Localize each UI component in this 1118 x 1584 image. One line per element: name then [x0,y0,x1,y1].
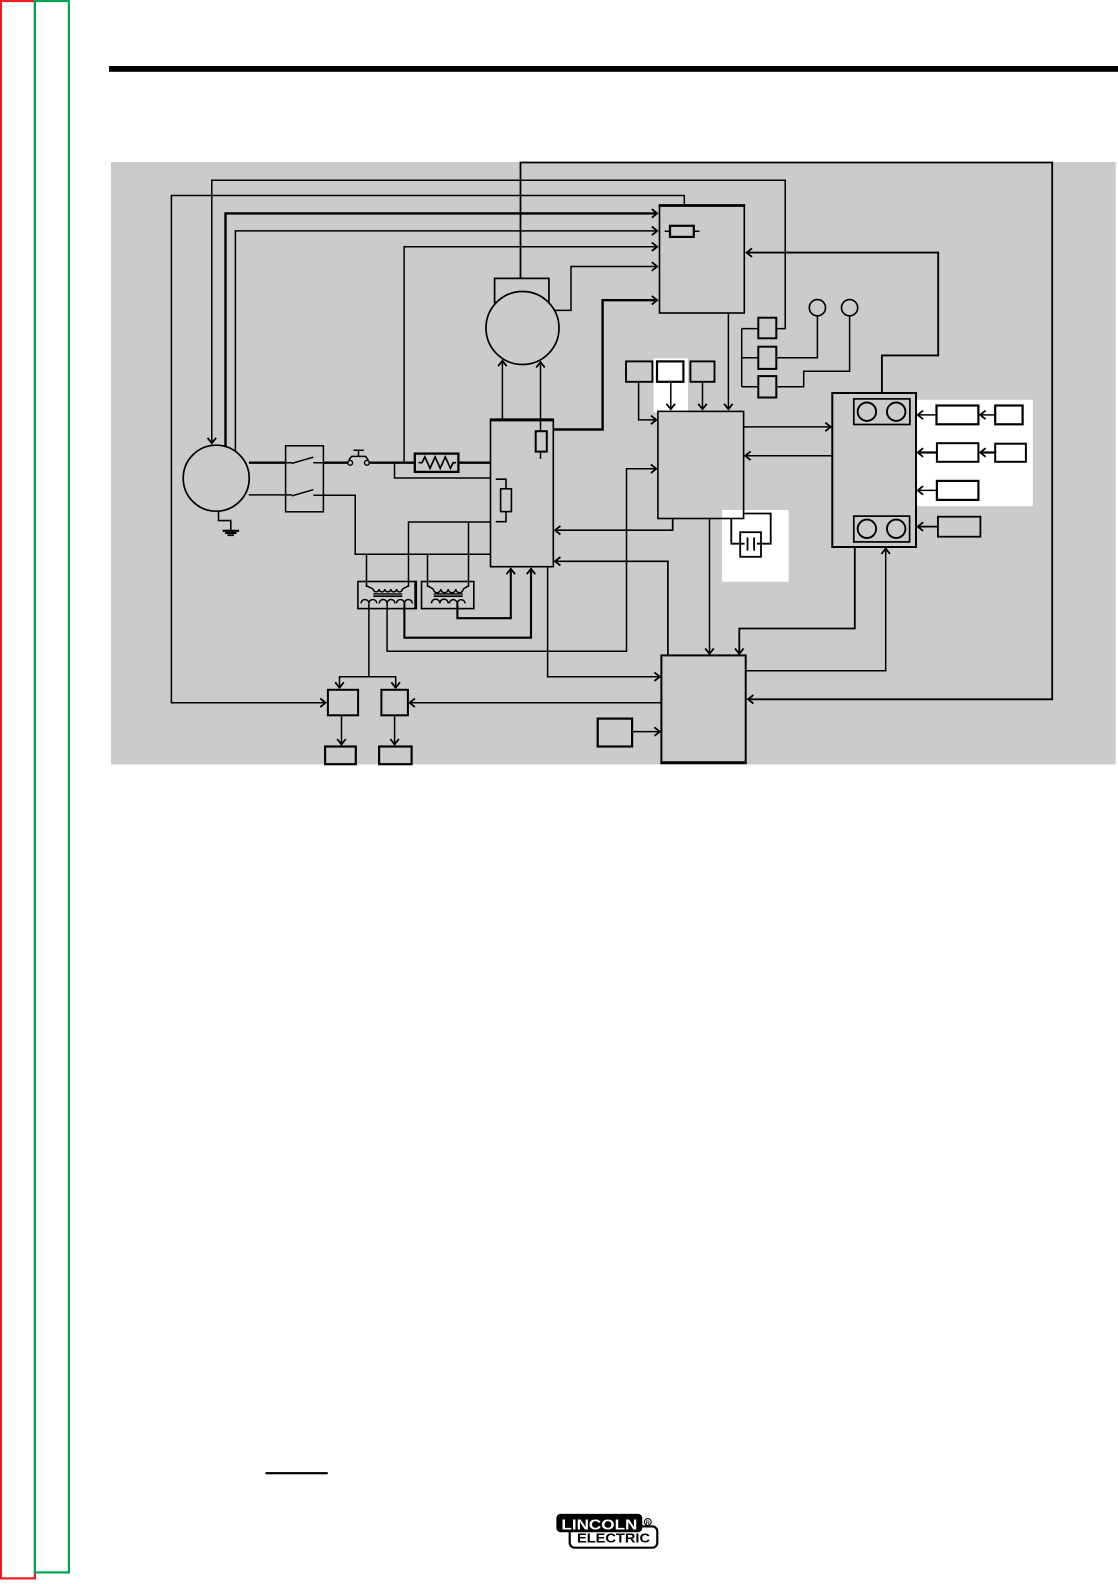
wire: L2 to control board I top [670,382,672,409]
choke box Q2 [381,690,408,716]
meter M1 circle a [858,403,876,421]
spark gap loop from control board I [731,514,770,544]
wire: T1 left primary lead [366,554,368,587]
resistor R1 bottom stub [540,452,542,459]
wire: plug to PCB A pin2 [235,231,657,453]
wire: L1 to control board I left [639,382,657,420]
legend box A2 [937,443,979,462]
wire: T1 secondary tap2 to control board I [387,469,656,651]
wire: switch to push button (thick) [323,462,347,464]
wire: input plug to line switch (upper, thick main line) [249,462,286,464]
wire: front panel M to control board I [745,455,832,457]
meter M2 circle b [887,520,905,538]
spark gap box [740,532,761,557]
wire: output board S to choke Q2 [410,702,662,704]
wire: output board S top to H right [555,561,668,655]
ground symbol [219,512,240,535]
PCB box A [660,206,745,314]
aux block L2 [657,361,683,381]
wire: L3 to control board I top [702,382,704,409]
diagram gray background [111,162,1116,764]
white backdrop for spark gap [722,510,789,582]
fan motor connection box [495,278,549,302]
legend box A3 [937,481,979,500]
wire: PCB A top feed / left tall loop to choke Q1 [171,196,684,703]
PCB box A thick top edge [659,204,745,207]
gun block R1 [325,747,356,765]
wire: PCB A right pin from front panel M top [747,253,939,393]
fuse inside A [670,226,694,237]
legend box B1 [995,406,1022,425]
line switch box E [286,446,324,512]
power board H thick top edge [490,418,554,421]
aux block L1 [626,361,652,381]
wire: power board H to PCB A pin5 (thick) [553,300,657,429]
wire: fan motor B to PCB A pin4 [555,267,657,311]
switch blade lower [286,490,324,496]
resistor G zigzag [419,457,457,468]
resistor G box [415,454,459,472]
legend box B2 [995,444,1026,462]
wire: switch lower out to transformers primary bus into H [323,495,490,554]
wire: choke Q2 to gun block R2 [394,715,396,744]
wire: feed box T to output board S [632,731,660,733]
wire: B2 to A2 (thick) [980,451,995,453]
wire: K1 to J2 [777,316,817,358]
legend box A1 [937,406,979,425]
meter group M2 [854,516,910,542]
control board I [658,411,744,518]
wire: H top to fan motor B bottom (left) [501,361,503,420]
wire: J1 to input plug loop (top) [212,180,785,443]
transformer T2 box [422,582,474,609]
fan motor circle B [486,292,559,365]
choke box Q1 [328,690,358,716]
gun block R2 [379,747,412,765]
header rule [109,66,1118,72]
Lincoln Electric logo: LINCOLN badge [556,1514,642,1532]
spark gap electrodes [740,538,761,551]
Lincoln Electric logo: ELECTRIC badge [570,1526,658,1547]
wire: T1 secondary tap1 down to chokes [368,603,370,676]
relay square J1 [758,318,776,339]
front panel box M [832,393,916,547]
output board S thick bottom edge [660,761,746,764]
wire: K2 to J3 [777,316,849,387]
white backdrop behind L2 [654,358,688,412]
wire: resistor G to power board H (thick) [458,462,490,464]
transformer T1 primary winding [367,586,409,592]
transformer T1 secondary winding [361,599,412,603]
wire: main line tap to PCB A pin3 [404,247,657,462]
relay square J2 [758,347,776,369]
wire: front panel M bottom lead to output board S top [739,547,855,654]
wire: output board S right to front panel M bottom [746,549,886,671]
wire: B1 to A1 [980,414,995,416]
meter group M1 [854,399,910,425]
input plug circle C [183,445,249,511]
potentiometer K1 [809,300,825,316]
J ladder bus [742,329,759,387]
wire: upper primary bus into H [409,522,491,587]
resistor R1 inside H [536,431,547,451]
wire: tap1 branch to choke Q1 [340,677,369,688]
red sidebar link box [1,1,35,1578]
Lincoln Electric logo: registered mark [644,1519,651,1526]
wire: T1 secondary tap3 to H bottom [404,569,531,638]
footnote rule [266,1472,328,1474]
push button contacts [348,460,353,465]
wire: input plug to line switch (lower) [249,494,286,496]
wire: A2 to front panel M (thick) [918,451,937,453]
wire: choke Q1 to gun block R1 [341,715,343,744]
resistor R2 bracket and body inside H [496,479,512,522]
meter M2 circle a [858,520,876,538]
potentiometer K2 [842,300,858,316]
wire: outer loop motor top to output S right [521,163,1053,700]
power board H [491,420,554,567]
feed box T [598,719,632,747]
push button actuator [349,450,369,460]
svg-text:LINCOLN: LINCOLN [561,1516,637,1533]
wire: plug to PCB A pin1 (thick) [226,213,658,451]
wire: tap1 branch to choke Q2 [369,677,396,688]
wire: T2 right primary lead [468,522,470,587]
wire: control board I to front panel M [744,426,831,428]
transformer T2 core [434,594,463,597]
transformer T1 core [373,594,402,597]
aux block L3 [690,361,714,381]
wire: control board I bottom to H right [555,519,673,531]
output board S [661,655,745,762]
wire: main line branch into H [395,463,491,478]
wire: PCB A bottom to control board I top [727,313,729,409]
transformer T1 thick right edge [414,581,417,610]
green sidebar link box [35,1,69,1572]
wire: A1 to front panel M [918,414,937,416]
legend box A4 [938,517,981,537]
transformer T1 box [358,582,416,609]
wire: push button to resistor G (thick) [369,462,415,464]
wire: resistor lead to fan motor B bottom (right) [540,362,542,431]
wire: T2 left primary lead [427,554,429,587]
wire: A3 to front panel M [918,489,937,491]
fuse leads [665,230,700,232]
meter M1 circle b [887,403,905,421]
wire: control board I bottom to output board S top [709,519,711,654]
white legend panel N [917,400,1033,507]
transformer T2 primary winding [428,586,469,593]
relay square J3 [758,376,776,397]
wire: A4 to front panel M [918,526,938,528]
wire: H bottom right to output board S [548,567,660,677]
svg-text:R: R [646,1520,650,1526]
switch blade upper [286,457,324,463]
transformer T2 secondary winding [431,599,465,603]
wire: T2 secondary to H bottom [457,569,510,618]
